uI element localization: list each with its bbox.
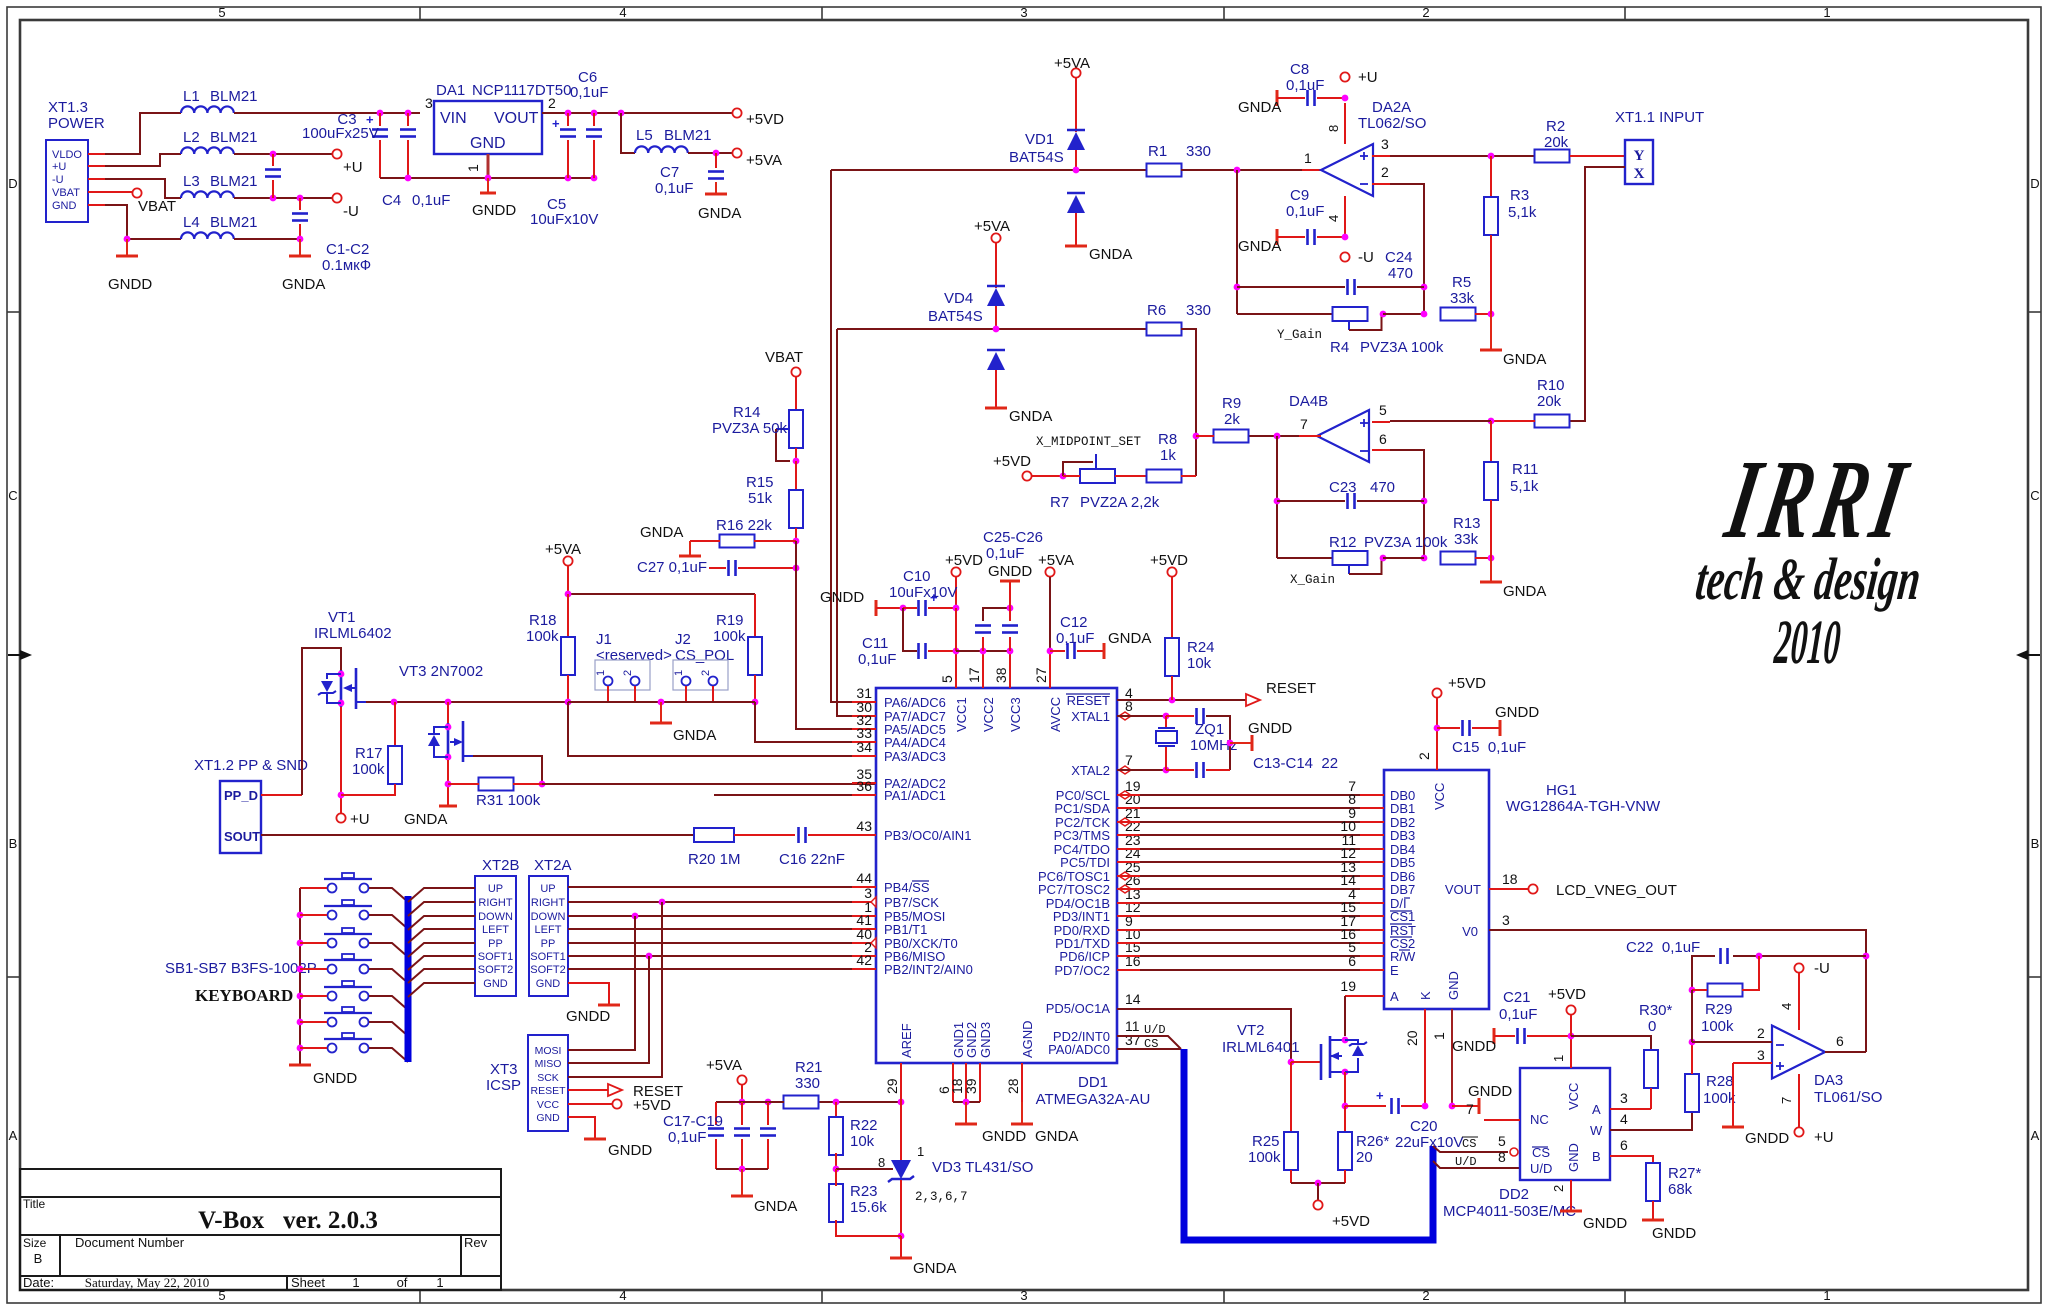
ground GNDD above C26 (1009, 581, 1011, 608)
svg-text:TL062/SO: TL062/SO (1358, 115, 1426, 132)
ground GNDA under R5 (1490, 314, 1492, 350)
pin 5 DD1 VCC1 (955, 651, 957, 688)
resistor R15 body (789, 490, 803, 528)
ground GNDA (1103, 643, 1106, 659)
wire R23 bottom (836, 1220, 901, 1236)
wire net CS2 (1117, 942, 1140, 944)
wire -U to L3 (105, 179, 181, 198)
junction keyboard row (297, 993, 304, 1000)
wire net DB5 (1117, 861, 1140, 863)
svg-text:A: A (1592, 1102, 1601, 1117)
pin 2 J1 (631, 677, 640, 686)
svg-text:D: D (2030, 176, 2039, 191)
junction R24 bottom (1169, 697, 1176, 704)
resistor R17 100k (394, 702, 396, 746)
junction C5 top (565, 110, 572, 117)
junction C2 bottom (297, 236, 304, 243)
terminal +5VD DD2 (1566, 1005, 1575, 1014)
wire XT2A to MCU PB row (568, 968, 876, 970)
junction R13 R11 (1488, 555, 1495, 562)
svg-text:Document Number: Document Number (75, 1235, 185, 1250)
wire XT2B LEFT from bus (408, 929, 475, 943)
svg-text:X_Gain: X_Gain (1290, 573, 1335, 587)
junction GNDD C26 (1007, 605, 1014, 612)
svg-text:GNDA: GNDA (282, 276, 325, 293)
junction GNDA J row (658, 699, 665, 706)
svg-text:1: 1 (917, 1144, 924, 1159)
junction VD1 tap (1073, 167, 1080, 174)
junction R14 R15 (793, 458, 800, 465)
svg-text:E: E (1390, 963, 1399, 978)
svg-text:GNDA: GNDA (1108, 630, 1151, 647)
junction C4 top (405, 110, 412, 117)
wire net DB0 (1117, 794, 1140, 796)
ground GNDD under XT1.3 (126, 239, 128, 256)
svg-text:B: B (9, 836, 18, 851)
svg-text:GNDA: GNDA (754, 1198, 797, 1215)
svg-text:K: K (1418, 991, 1433, 1000)
svg-text:BLM21: BLM21 (210, 214, 258, 231)
svg-text:0,1uF: 0,1uF (1286, 203, 1324, 220)
wire PP_D to VT1 (261, 794, 302, 796)
svg-text:R14: R14 (733, 404, 761, 421)
svg-text:B: B (2031, 836, 2040, 851)
resistor R18 body (561, 637, 575, 675)
wire GND to L4 (105, 205, 181, 239)
terminal +5VD LCD (1432, 688, 1441, 697)
svg-text:51k: 51k (748, 490, 773, 507)
svg-text:U/D: U/D (1530, 1161, 1552, 1176)
switch SB2 (324, 905, 372, 907)
svg-text:39: 39 (963, 1078, 979, 1094)
terminal +5VA VD4 (991, 233, 1000, 242)
terminal LCD_VNEG_OUT (1528, 884, 1537, 893)
wire XT2B PP from bus (408, 943, 475, 957)
svg-text:GNDD: GNDD (988, 563, 1032, 580)
capacitor C3 (372, 128, 388, 131)
svg-text:C8: C8 (1290, 61, 1309, 78)
svg-text:C: C (2030, 488, 2039, 503)
junction C19 right (765, 1099, 772, 1106)
svg-text:GNDA: GNDA (1035, 1128, 1078, 1145)
svg-text:CS: CS (1462, 1137, 1476, 1151)
svg-text:PC1/SDA: PC1/SDA (1054, 801, 1110, 816)
svg-text:+5VD: +5VD (1448, 675, 1486, 692)
svg-text:PA0/ADC0: PA0/ADC0 (1048, 1042, 1110, 1057)
svg-text:4: 4 (619, 1288, 626, 1303)
svg-text:PB2/INT2/AIN0: PB2/INT2/AIN0 (884, 962, 973, 977)
svg-text:XTAL2: XTAL2 (1071, 763, 1110, 778)
svg-text:3: 3 (1020, 5, 1027, 20)
ground GNDD (1251, 735, 1254, 751)
svg-text:C13-C14 22: C13-C14 22 (1253, 755, 1338, 772)
svg-text:GNDD: GNDD (1468, 1083, 1512, 1100)
svg-text:1: 1 (673, 670, 685, 676)
junction keyboard row (297, 912, 304, 919)
pin 2 J2 (709, 677, 718, 686)
svg-text:2: 2 (1757, 1025, 1765, 1041)
junction VT3 source pin (445, 754, 452, 761)
svg-text:10k: 10k (850, 1133, 875, 1150)
svg-text:R21: R21 (795, 1059, 823, 1076)
svg-text:1: 1 (1431, 1032, 1447, 1040)
wire R11 bottom (1490, 500, 1492, 558)
svg-text:GND: GND (52, 200, 77, 212)
terminal +5VD R24 (1167, 567, 1176, 576)
resistor R29 body (1708, 984, 1743, 997)
junction VT2 drain (1342, 1037, 1349, 1044)
svg-text:NC: NC (1530, 1112, 1549, 1127)
svg-text:7: 7 (1125, 752, 1133, 768)
svg-text:LEFT: LEFT (482, 924, 509, 936)
connector XT1.3 box (46, 140, 88, 222)
svg-text:GNDD: GNDD (1495, 704, 1539, 721)
svg-text:VOUT: VOUT (494, 110, 539, 127)
junction C24 left (1234, 284, 1241, 291)
svg-text:X_MIDPOINT_SET: X_MIDPOINT_SET (1036, 435, 1142, 449)
svg-text:GNDD: GNDD (1745, 1130, 1789, 1147)
junction C20 K (1422, 1103, 1429, 1110)
svg-text:U/D: U/D (1455, 1155, 1477, 1169)
wire R6 to R9 node (1181, 329, 1196, 476)
terminal +5VA AVCC (1045, 567, 1054, 576)
svg-text:3: 3 (1020, 1288, 1027, 1303)
svg-text:CS_POL: CS_POL (675, 647, 734, 664)
resistor R19 100k (754, 594, 756, 637)
capacitor C19 (767, 1102, 769, 1125)
junction C6 top (591, 110, 598, 117)
svg-text:RESET: RESET (1266, 680, 1316, 697)
svg-text:0: 0 (1648, 1018, 1656, 1035)
junction C9 -U (1342, 234, 1349, 241)
junction keyboard row (297, 966, 304, 973)
title block (20, 1169, 501, 1290)
svg-text:R31 100k: R31 100k (476, 792, 541, 809)
svg-text:UP: UP (540, 883, 555, 895)
svg-text:DB1: DB1 (1390, 801, 1415, 816)
pin marker PB0 (871, 938, 876, 948)
pin 43 DD1 PB3/OC0/AIN1 (852, 834, 876, 836)
svg-text:6: 6 (1836, 1033, 1844, 1049)
svg-text:GNDA: GNDA (1009, 408, 1052, 425)
wire PP_D up (302, 648, 341, 795)
junction R29 left (1689, 987, 1696, 994)
ground GNDA (289, 255, 311, 258)
junction R23 bottom (898, 1233, 905, 1240)
svg-text:+5VD: +5VD (746, 111, 784, 128)
terminal +5VD caps (951, 567, 960, 576)
svg-text:KEYBOARD: KEYBOARD (195, 986, 293, 1005)
wire DA2A pin3 to R2 (1390, 155, 1535, 157)
svg-text:VIN: VIN (440, 110, 467, 127)
wire XT2B UP from bus (408, 888, 475, 902)
svg-text:SOFT2: SOFT2 (530, 964, 565, 976)
wire net DB3 (1117, 834, 1140, 836)
svg-text:1: 1 (465, 164, 481, 172)
capacitor C20 body (1390, 1098, 1393, 1114)
svg-text:14: 14 (1125, 991, 1141, 1007)
svg-text:20k: 20k (1544, 134, 1569, 151)
junction C10 right (953, 605, 960, 612)
terminal +5VD R7 (1022, 471, 1031, 480)
svg-text:PVZ3A 100k: PVZ3A 100k (1364, 534, 1448, 551)
resistor R31 body (479, 778, 514, 791)
svg-text:R7: R7 (1050, 494, 1069, 511)
wire XT2A to MCU PB row (568, 942, 876, 944)
svg-text:DA2A: DA2A (1372, 99, 1411, 116)
svg-text:37: 37 (1125, 1032, 1141, 1048)
terminal +5VA R18 (563, 556, 572, 565)
wire B to R27 (1610, 1156, 1653, 1163)
resistor R2 20k (1535, 150, 1570, 163)
svg-text:Size: Size (23, 1236, 47, 1250)
svg-text:L2: L2 (183, 129, 200, 146)
svg-text:+5VA: +5VA (974, 218, 1010, 235)
bus keyboard thick (405, 896, 412, 1062)
resistor R16 body (720, 535, 755, 548)
wire net DB4 (1117, 848, 1140, 850)
wire PA1 stub (714, 794, 876, 796)
svg-text:XT1.3: XT1.3 (48, 99, 88, 116)
wire C22 left (1692, 956, 1715, 990)
wire C24 left (1236, 170, 1238, 314)
wire VD3 anode to GNDA (900, 1180, 902, 1236)
svg-text:GNDD: GNDD (313, 1070, 357, 1087)
capacitor C10 body (917, 600, 920, 616)
svg-text:PB3/OC0/AIN1: PB3/OC0/AIN1 (884, 828, 971, 843)
svg-text:1: 1 (1823, 5, 1830, 20)
svg-text:+5VD: +5VD (1548, 986, 1586, 1003)
capacitor C8 (1306, 90, 1309, 106)
wire U/D diag (1117, 1036, 1181, 1049)
wire R29 to C22 (1742, 956, 1759, 990)
svg-text:SB1-SB7 B3FS-1002P: SB1-SB7 B3FS-1002P (165, 960, 317, 977)
capacitor C23 470 (1346, 493, 1349, 509)
resistor R5 33k (1441, 308, 1476, 321)
ground GNDA under C2 (299, 239, 301, 256)
wire keyboard common (299, 888, 301, 1065)
junction C6 bottom (591, 175, 598, 182)
resistor R11 5,1k (1484, 462, 1498, 500)
junction VT2 gate R25 (1288, 1059, 1295, 1066)
junction DA2A out (1234, 167, 1241, 174)
wire gate row y702 (366, 701, 568, 703)
svg-text:100k: 100k (352, 761, 385, 778)
svg-text:R12: R12 (1329, 534, 1357, 551)
svg-text:SCK: SCK (537, 1072, 559, 1084)
junction caps GNDA (739, 1166, 746, 1173)
wire net RST (1117, 929, 1140, 931)
capacitor C7 (708, 170, 724, 173)
junction C20 GND (1449, 1103, 1456, 1110)
resistor R15 51k (795, 461, 797, 490)
wire R4 row left (1237, 313, 1334, 315)
resistor R18 100k (567, 594, 569, 637)
wire C25 top (983, 608, 1010, 621)
svg-text:8: 8 (1326, 125, 1341, 132)
terminal +5VD VT2 (1313, 1200, 1322, 1209)
wire R12 row left (1277, 557, 1334, 559)
svg-text:PA3/ADC3: PA3/ADC3 (884, 749, 946, 764)
wire SB7 to bus (369, 1048, 408, 1062)
svg-text:RIGHT: RIGHT (478, 897, 513, 909)
junction +5VD (1315, 1180, 1322, 1187)
pin 41 DD1 PB1/T1 (852, 928, 876, 930)
capacitor C1 (272, 154, 274, 166)
wire XTAL1 row (1117, 715, 1166, 717)
svg-text:GNDA: GNDA (1503, 583, 1546, 600)
wire top rail (568, 593, 755, 595)
svg-text:R15: R15 (746, 474, 774, 491)
wire VT3 source to GNDA (447, 760, 449, 806)
svg-text:5: 5 (939, 675, 955, 683)
resistor R20 body (694, 828, 734, 842)
wire L4 to GNDA (234, 238, 300, 240)
resistor R8 1k (1147, 470, 1182, 483)
junction C8 +U (1342, 95, 1349, 102)
junction VD4 tap (993, 326, 1000, 333)
svg-text:2: 2 (700, 670, 712, 676)
svg-text:GND3: GND3 (978, 1022, 993, 1058)
wire XT2B RIGHT from bus (408, 902, 475, 916)
ground GNDA (1065, 245, 1087, 248)
pin 1 J1 (604, 677, 613, 686)
svg-text:VBAT: VBAT (52, 187, 80, 199)
potentiometer R14 body (789, 410, 803, 448)
svg-text:GNDD: GNDD (608, 1142, 652, 1159)
resistor R22 10k (835, 1102, 837, 1119)
svg-text:GND: GND (1566, 1143, 1581, 1172)
wire R3 top (1490, 156, 1492, 199)
svg-text:DA1: DA1 (436, 82, 465, 99)
DD2 box (1520, 1068, 1610, 1180)
svg-text:RESET: RESET (1067, 693, 1110, 708)
svg-text:L4: L4 (183, 214, 200, 231)
svg-text:DD2: DD2 (1499, 1186, 1529, 1203)
svg-text:4: 4 (1326, 215, 1341, 222)
ground GNDD (955, 1123, 977, 1126)
capacitor C26 body (1002, 624, 1018, 627)
wire XT2B SOFT1 from bus (408, 956, 475, 970)
svg-text:MOSI: MOSI (535, 1045, 562, 1057)
wire Y net R1 row (831, 169, 1147, 171)
inductor L3 (181, 191, 234, 198)
svg-text:2010: 2010 (1772, 607, 1843, 677)
svg-text:R5: R5 (1452, 274, 1471, 291)
pin 27 DD1 AVCC (1049, 651, 1051, 688)
svg-text:68k: 68k (1668, 1181, 1693, 1198)
wire DA1 GND pin (487, 154, 490, 178)
svg-text:+5VD: +5VD (1332, 1213, 1370, 1230)
wire L3 to -U terminal (234, 197, 332, 199)
svg-text:PC7/TOSC2: PC7/TOSC2 (1038, 882, 1110, 897)
wire XT3 VCC (568, 1103, 612, 1105)
svg-text:VLDO: VLDO (52, 149, 82, 161)
svg-text:-U: -U (1358, 249, 1374, 266)
junction C26 bottom (1007, 648, 1014, 655)
wire net E (1117, 969, 1140, 971)
svg-text:DOWN: DOWN (478, 911, 513, 923)
junction keyboard row (297, 940, 304, 947)
svg-text:VT1: VT1 (328, 609, 356, 626)
potentiometer R4 PVZ3A 100k (1333, 307, 1368, 321)
resistor R26 body (1338, 1132, 1352, 1170)
junction C23 right (1421, 498, 1428, 505)
wire VT3 gate to R31 (473, 756, 542, 784)
svg-text:PP: PP (488, 938, 503, 950)
svg-text:22uFx10V: 22uFx10V (1395, 1134, 1463, 1151)
junction R18 bottom (565, 699, 572, 706)
switch SB7 (324, 1038, 372, 1040)
regulator DA1 box (434, 101, 542, 154)
wire net DB7 (1117, 888, 1140, 890)
svg-text:1: 1 (352, 1275, 359, 1290)
svg-text:VOUT: VOUT (1445, 882, 1481, 897)
pin 39 DD1 GND3 (979, 1063, 981, 1102)
svg-text:+U: +U (1358, 69, 1378, 86)
diode VD1 bottom half (1067, 192, 1085, 195)
wire XTAL2 row (1117, 769, 1166, 771)
svg-text:R20 1M: R20 1M (688, 851, 741, 868)
svg-text:+U: +U (350, 811, 370, 828)
svg-text:100uFx25V: 100uFx25V (302, 125, 379, 142)
ground GNDD (480, 192, 496, 195)
ground GNDA AGND (1021, 1102, 1023, 1124)
svg-text:A: A (2031, 1128, 2040, 1143)
svg-text:100k: 100k (1701, 1018, 1734, 1035)
svg-text:R16 22k: R16 22k (716, 517, 772, 534)
svg-text:470: 470 (1370, 479, 1395, 496)
resistor R25 body (1284, 1132, 1298, 1170)
svg-text:28: 28 (1005, 1078, 1021, 1094)
wire U/D out (1433, 1161, 1520, 1168)
junction C24 right (1421, 284, 1428, 291)
ground GNDD (1560, 1210, 1582, 1213)
svg-text:VD1: VD1 (1025, 131, 1054, 148)
wire PD5 net (1117, 1009, 1291, 1062)
border center arrows (20, 650, 32, 660)
svg-text:15.6k: 15.6k (850, 1199, 887, 1216)
svg-text:C1-C2: C1-C2 (326, 241, 369, 258)
capacitor C2 (292, 212, 308, 215)
inductor L2 (181, 147, 234, 154)
svg-text:R11: R11 (1512, 461, 1538, 478)
wire to MCU PA3 (568, 702, 876, 756)
svg-text:LCD_VNEG_OUT: LCD_VNEG_OUT (1556, 882, 1677, 899)
junction C25 bottom (980, 648, 987, 655)
wire L2 to +U terminal (234, 153, 332, 155)
resistor R26* 20 (1344, 1106, 1346, 1132)
junction R13 left (1421, 555, 1428, 562)
resistor R30 body (1644, 1050, 1658, 1088)
svg-text:ICSP: ICSP (486, 1077, 521, 1094)
svg-text:SOFT2: SOFT2 (478, 964, 513, 976)
op-amp DA4B TL062/SO (1317, 410, 1369, 462)
wire SB4 to bus (369, 969, 408, 983)
svg-text:VBAT: VBAT (138, 198, 176, 215)
terminal -U DA3 (1794, 963, 1803, 972)
wire vcc row (956, 650, 1010, 652)
terminal +U DA3 (1794, 1127, 1803, 1136)
svg-text:29: 29 (884, 1078, 900, 1094)
svg-text:VCC: VCC (537, 1099, 560, 1111)
svg-text:Title: Title (23, 1197, 46, 1211)
svg-text:R4: R4 (1330, 339, 1349, 356)
svg-text:A: A (1390, 989, 1399, 1004)
potentiometer R7 PVZ2A 2,2k (1080, 469, 1115, 483)
junction C1 top (270, 151, 277, 158)
svg-text:42: 42 (856, 952, 872, 968)
